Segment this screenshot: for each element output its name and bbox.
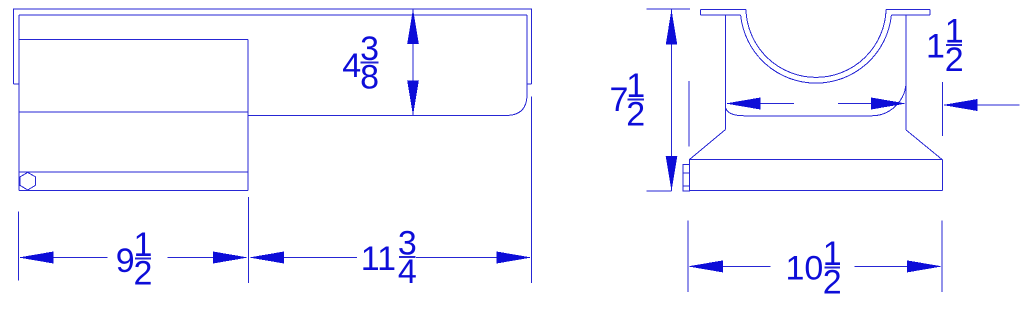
- right view: side nut rectangle: [683, 165, 689, 192]
- dim 4 3/8: dimension line: [412, 9, 414, 116]
- left view: outer cover left bottom tick: [13, 83, 19, 85]
- dim 11 3/4: left arrow: [249, 252, 284, 264]
- left view: step edge left segment: [19, 111, 248, 113]
- svg-text:10: 10: [786, 249, 824, 287]
- right view: base top edge: [689, 159, 942, 161]
- left view: body left edge: [18, 15, 20, 191]
- svg-text:1: 1: [926, 28, 945, 66]
- dim inner width: right tail line: [838, 103, 871, 105]
- dim 11 3/4: right extension line: [531, 97, 533, 283]
- right view: left wall edge: [725, 15, 727, 129]
- right view: nut facet line 1: [683, 172, 689, 174]
- dim 7 1/2: dimension line: [671, 10, 673, 191]
- svg-text:11: 11: [361, 240, 396, 278]
- dim 4 3/8: bottom arrow: [407, 81, 419, 116]
- dim 1 1/2: tail line: [978, 104, 1020, 106]
- dim 10 1/2: left tail line: [723, 265, 771, 267]
- right view: flange left edge: [700, 9, 702, 15]
- right view: slot floor: [745, 115, 872, 117]
- dim inner width: left extension line: [688, 81, 690, 147]
- dim 1 1/2: extension line: [942, 82, 944, 136]
- dim 9 1/2: left extension line: [18, 212, 20, 281]
- right view: left shoulder slope: [689, 130, 725, 160]
- left view: body right edge with corner fillet: [506, 15, 527, 116]
- left view: outer cover right bottom tick: [527, 83, 531, 85]
- svg-text:2: 2: [134, 254, 153, 292]
- dim 9 1/2: right tail line: [168, 257, 214, 259]
- svg-text:2: 2: [626, 96, 645, 134]
- dim 11 3/4: left tail line: [284, 257, 357, 259]
- dim inner width: left tail line: [761, 103, 795, 105]
- svg-text:2: 2: [823, 264, 842, 302]
- right view: base bottom edge: [689, 190, 942, 192]
- svg-text:9: 9: [116, 242, 135, 280]
- svg-text:4: 4: [342, 47, 361, 85]
- dim 10 1/2: right arrow: [907, 260, 942, 272]
- right view: nut facet line 2: [683, 185, 689, 187]
- left view: outer cover outline top line: [13, 9, 531, 84]
- dim 10 1/2: left arrow: [688, 260, 723, 272]
- svg-text:4: 4: [398, 253, 417, 291]
- dim 7 1/2: top extension line: [646, 8, 690, 10]
- right view: base left edge: [688, 160, 690, 191]
- svg-text:2: 2: [945, 41, 964, 79]
- right view: flange bottom right segment: [891, 14, 930, 16]
- svg-text:8: 8: [360, 59, 379, 97]
- right view: slot floor left fillet: [726, 106, 746, 116]
- dim 11 3/4: right arrow: [497, 252, 532, 264]
- dim 9 1/2 / 11 3/4: shared middle extension line: [248, 197, 250, 283]
- left view: body top edge: [19, 14, 527, 16]
- right view: groove outer arc: [741, 15, 892, 83]
- dim 1 1/2: arrow: [943, 99, 978, 111]
- dim 7 1/2: bottom extension line: [646, 190, 671, 192]
- right view: groove inner arc: [746, 9, 886, 77]
- left view: bolt head hexagon: [20, 172, 36, 190]
- dim 4 3/8: top arrow: [407, 9, 419, 44]
- dim 7 1/2: bottom arrow: [666, 156, 678, 191]
- left view: lower strip top edge: [19, 171, 248, 173]
- left view: block divider vertical: [247, 39, 249, 190]
- right view: flange bottom left segment: [701, 14, 741, 16]
- dim 9 1/2: left arrow: [19, 252, 54, 264]
- right view: base right edge: [941, 160, 943, 191]
- dim 10 1/2: right extension line: [941, 221, 943, 292]
- dim 7 1/2: top arrow: [666, 10, 678, 45]
- right view: flange top right segment: [886, 8, 930, 10]
- dim 10 1/2: left extension line: [687, 221, 689, 292]
- dim 10 1/2: right tail line: [855, 265, 908, 267]
- right view: right wall edge: [905, 15, 907, 130]
- dim 9 1/2: right arrow: [213, 252, 248, 264]
- left view: bottom edge: [19, 190, 248, 192]
- left view: raised block top edge: [19, 38, 248, 40]
- dim inner width: left arrow: [726, 98, 761, 110]
- dim 9 1/2: left tail line: [54, 257, 108, 259]
- right view: flange right edge: [929, 9, 931, 15]
- dim 11 3/4: right tail line: [416, 257, 497, 259]
- right view: slot floor right fillet curve: [872, 81, 906, 116]
- right view: flange top left segment: [701, 8, 746, 10]
- right view: right shoulder slope: [906, 130, 942, 160]
- left view: step edge right segment: [248, 115, 506, 117]
- dim inner width: right arrow: [871, 98, 906, 110]
